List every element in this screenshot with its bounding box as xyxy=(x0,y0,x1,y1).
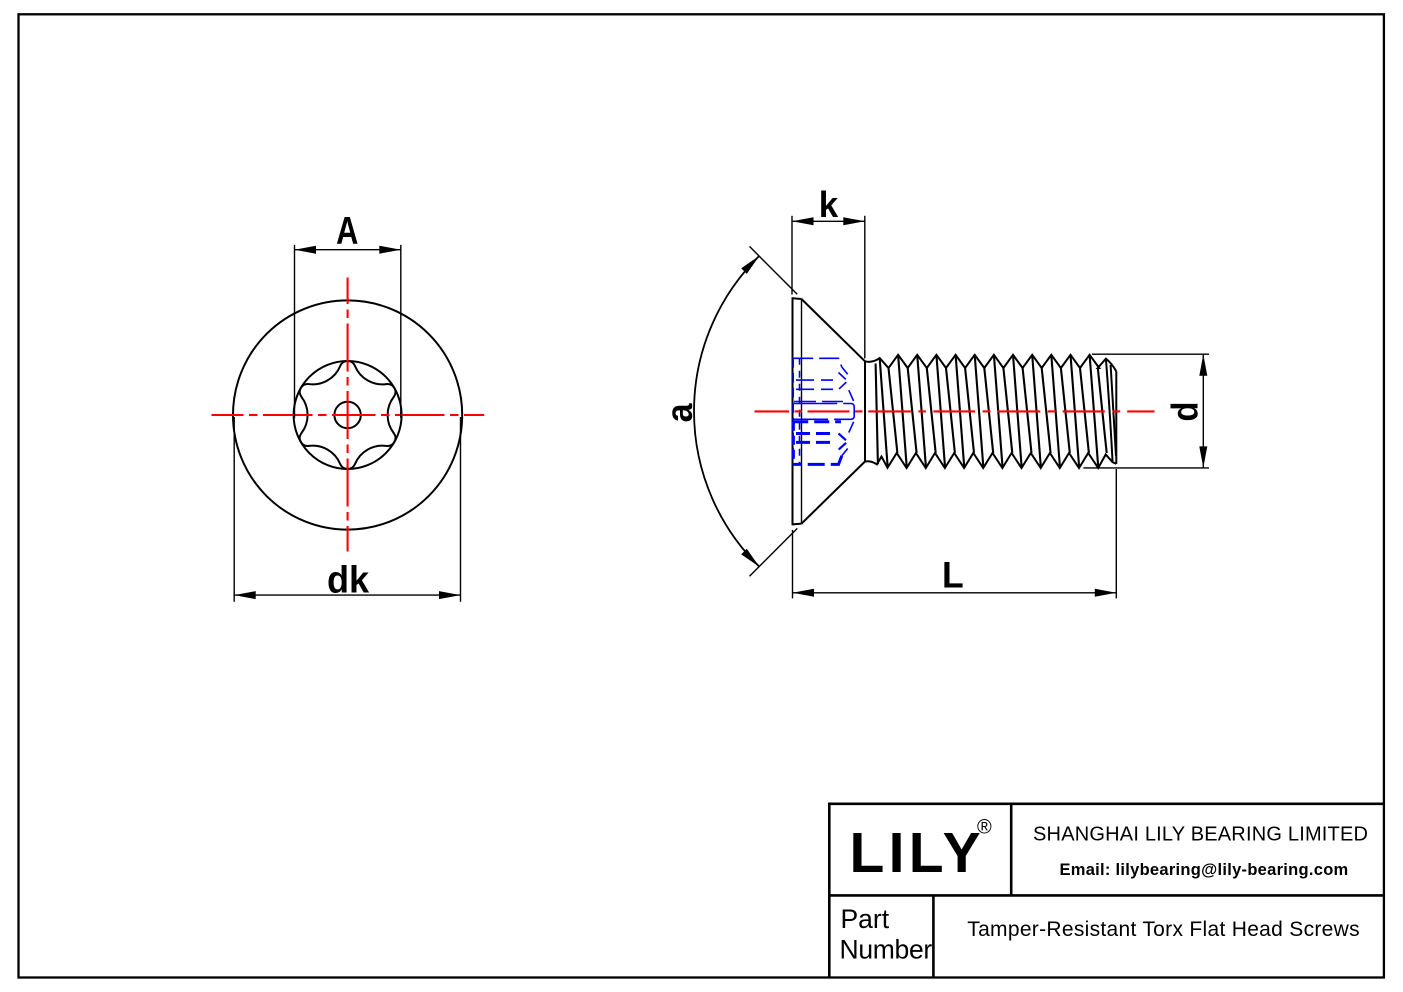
center pin circle xyxy=(334,402,360,428)
thread top crest outline xyxy=(865,355,1116,372)
title block top row vertical divider xyxy=(1010,804,1013,896)
torx recess circle xyxy=(294,361,402,469)
recess opening vertical dashed line xyxy=(792,358,794,465)
dimension d extension lines xyxy=(1083,354,1209,468)
dimension a extension line bottom xyxy=(750,528,798,576)
title block bottom row vertical divider xyxy=(932,895,935,977)
dimension L arrowheads xyxy=(793,589,1117,597)
svg-text:dk: dk xyxy=(327,557,369,600)
recess opening vertical dashed line lower thick part xyxy=(792,422,795,465)
svg-text:A: A xyxy=(336,210,358,253)
svg-text:d: d xyxy=(1165,402,1206,422)
hidden torx recess (blue dashed) xyxy=(793,358,854,465)
head rim bottom edge xyxy=(793,523,802,526)
thread bottom crest outline xyxy=(865,453,1116,468)
svg-text:SHANGHAI LILY BEARING LIMITED: SHANGHAI LILY BEARING LIMITED xyxy=(1033,823,1368,845)
dimension a extension line top xyxy=(694,246,797,576)
dimension dk arrowheads xyxy=(234,591,460,599)
svg-text:Number: Number xyxy=(840,935,933,965)
svg-text:Tamper-Resistant Torx Flat Hea: Tamper-Resistant Torx Flat Head Screws xyxy=(967,918,1360,941)
pin hole outline xyxy=(793,404,854,420)
recess lobe line upper 1 xyxy=(796,379,833,381)
screw end chamfer flank line 1 xyxy=(1106,359,1113,462)
svg-text:a: a xyxy=(658,403,700,422)
recess lobe line lower 1 xyxy=(796,432,833,435)
dimension dk line xyxy=(234,594,460,596)
dimension L extension lines xyxy=(793,469,1117,598)
recess right taper lower xyxy=(842,422,854,456)
recess right taper upper xyxy=(842,367,854,401)
recess lobe line upper 2 xyxy=(796,388,833,390)
head outer circle dk xyxy=(233,300,462,529)
dimension A arrowheads xyxy=(295,246,401,254)
dimension d arrowheads xyxy=(1199,354,1207,468)
head rim top edge xyxy=(793,297,802,300)
recess outer bottom line xyxy=(793,456,842,465)
head face outer vertical line xyxy=(792,297,794,525)
dimension A extension lines xyxy=(295,245,401,418)
dimension dk extension lines xyxy=(234,417,460,602)
title block horizontal divider xyxy=(829,894,1384,897)
dimension k line xyxy=(792,220,865,222)
dimension d line xyxy=(1202,354,1204,468)
head cone top edge xyxy=(802,299,866,361)
recess outer top line xyxy=(793,358,842,367)
torx 6-lobe recess outline xyxy=(300,361,396,469)
screw end chamfer flank line 2 xyxy=(1111,365,1116,456)
dimension a arc arrowheads xyxy=(741,256,759,567)
recess line above pin xyxy=(794,401,843,403)
screw end face xyxy=(1115,371,1117,464)
front view horizontal centerline xyxy=(212,414,485,416)
recess second vertical dashed line xyxy=(799,358,801,465)
svg-text:Part: Part xyxy=(841,904,890,934)
dimension k arrowheads xyxy=(792,217,865,225)
svg-text:k: k xyxy=(819,185,839,226)
svg-text:Email: lilybearing@lily-bearin: Email: lilybearing@lily-bearing.com xyxy=(1059,861,1348,879)
head cone bottom edge xyxy=(802,462,866,524)
svg-text:®: ® xyxy=(977,817,992,839)
neck vertical line at cone end xyxy=(864,361,866,461)
svg-text:L: L xyxy=(942,554,964,596)
dimension L line xyxy=(793,592,1117,594)
front view vertical centerline xyxy=(347,278,349,552)
svg-text:LILY: LILY xyxy=(850,821,985,885)
recess lobe line lower 2 xyxy=(796,441,833,444)
recess thick line below pin xyxy=(793,420,841,423)
dimension A line xyxy=(295,249,401,251)
recess lower chevron xyxy=(839,434,848,450)
thread flank lines xyxy=(876,355,1107,468)
title block outer box xyxy=(829,804,1384,978)
dimension k extension lines xyxy=(792,216,865,359)
head face inner vertical line xyxy=(801,299,803,524)
side view horizontal centerline xyxy=(755,410,1155,412)
recess upper chevron xyxy=(839,373,848,390)
dimension a arc xyxy=(694,256,759,567)
